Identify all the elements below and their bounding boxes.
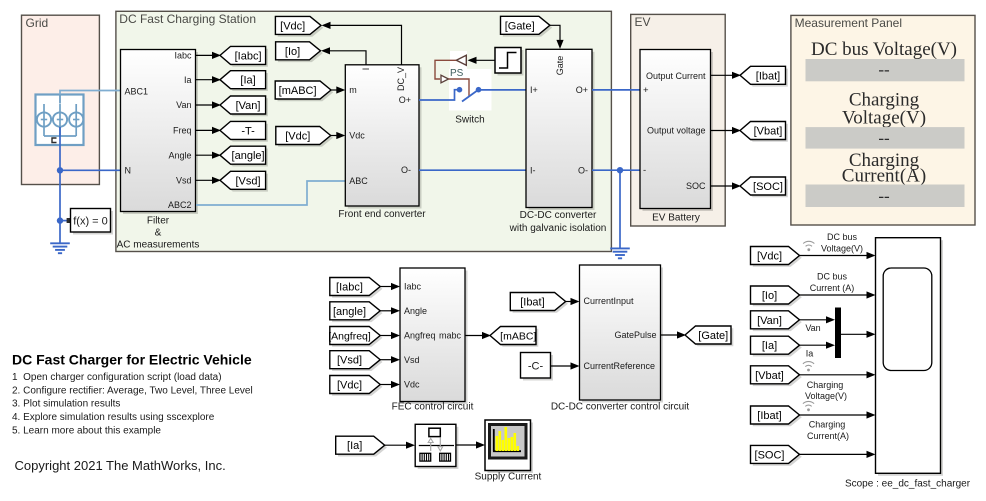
svg-text:PS: PS: [450, 68, 464, 79]
svg-text:&: &: [155, 228, 162, 239]
from tag [SOC] (scope): [751, 445, 802, 465]
svg-text:Voltage(V): Voltage(V): [842, 108, 926, 129]
wireless icon Ibat: [803, 401, 814, 411]
svg-text:Gate: Gate: [555, 56, 565, 76]
svg-text:EV: EV: [635, 15, 651, 29]
svg-text:[Iabc]: [Iabc]: [235, 50, 262, 62]
block DC-DC converter control circuit: [580, 265, 664, 403]
svg-text:+: +: [643, 85, 649, 96]
wire [angle] to FEC Angle: [380, 307, 400, 314]
wire GatePulse to [Gate]: [661, 331, 687, 338]
node f(x) junction: [57, 217, 63, 223]
goto tag [Io] top: [276, 42, 323, 62]
svg-text:EV Battery: EV Battery: [652, 213, 700, 224]
scope screen: [883, 268, 932, 371]
caption DC-DC converter control circuit: [551, 402, 690, 413]
numbered list annotation: [12, 372, 253, 437]
caption Switch: [455, 115, 484, 126]
svg-text:-C-: -C-: [528, 361, 544, 373]
svg-text:3. Plot simulation results: 3. Plot simulation results: [12, 399, 120, 410]
area Measurement Panel: [791, 15, 975, 225]
ground (grid): [50, 243, 70, 253]
from tag [Ia] (scope): [751, 336, 802, 356]
svg-text:DC Fast Charging Station: DC Fast Charging Station: [119, 12, 256, 26]
from tag [Vdc] (FEC): [330, 376, 383, 396]
svg-text:--: --: [878, 60, 890, 79]
ground (dc link): [610, 248, 630, 258]
caption Filter & AC measurements: [117, 216, 200, 251]
svg-text:Vsd: Vsd: [404, 355, 420, 365]
svg-text:[Van]: [Van]: [757, 315, 782, 327]
goto tag [Ia]: [220, 71, 268, 91]
wire [Vdc] to FEC Vdc: [380, 381, 400, 388]
svg-text:Angle: Angle: [168, 150, 191, 160]
wire Filter to [Vsd]: [196, 177, 222, 184]
wire ground drop: [59, 170, 61, 243]
svg-text:CurrentInput: CurrentInput: [584, 296, 635, 306]
svg-text:DC_V: DC_V: [396, 67, 406, 91]
svg-text:[Ibat]: [Ibat]: [757, 410, 781, 422]
wire -C- to CurrentReference: [551, 362, 580, 369]
svg-text:[Angfreq]: [Angfreq]: [328, 330, 371, 342]
svg-text:CurrentReference: CurrentReference: [584, 361, 656, 371]
panel display charging current: [806, 185, 965, 208]
from tag [Gate] top: [501, 16, 553, 36]
wire Filter to [Van]: [196, 101, 222, 108]
svg-text:[Gate]: [Gate]: [505, 20, 535, 32]
wire [Vsd] to FEC Vsd: [380, 356, 400, 363]
switch contact right: [476, 87, 482, 93]
svg-text:ABC2: ABC2: [168, 200, 192, 210]
svg-text:GatePulse: GatePulse: [614, 330, 656, 340]
svg-text:[Ia]: [Ia]: [762, 340, 777, 352]
svg-text:Van: Van: [176, 100, 191, 110]
goto tag [Iabc]: [220, 46, 268, 66]
switch contact left: [457, 87, 463, 93]
svg-text:[Ibat]: [Ibat]: [756, 70, 780, 82]
wire [Vdc] to Vdc port: [331, 132, 346, 139]
svg-text:DC bus: DC bus: [817, 272, 848, 282]
svg-text:Output Current: Output Current: [646, 71, 706, 81]
svg-text:I: I: [361, 68, 371, 71]
caption DC-DC converter: [509, 210, 607, 234]
constant -C-: [521, 353, 554, 381]
wire [Ibat] to scope: [799, 411, 876, 418]
svg-text:Copyright 2021 The MathWorks,: Copyright 2021 The MathWorks, Inc.: [15, 458, 226, 473]
svg-text:Current(A): Current(A): [842, 166, 926, 187]
svg-text:[Vdc]: [Vdc]: [280, 20, 305, 32]
svg-text:DC Fast Charger for Electric V: DC Fast Charger for Electric Vehicle: [12, 352, 252, 368]
svg-text:[Io]: [Io]: [285, 46, 300, 58]
svg-text:[SOC]: [SOC]: [753, 181, 783, 193]
svg-text:5. Learn more about this examp: 5. Learn more about this example: [12, 426, 161, 437]
svg-text:Iabc: Iabc: [404, 282, 422, 292]
goto tag [mABC] out: [490, 327, 538, 347]
DC-DC converter port labels: [530, 56, 588, 176]
switch blade: [462, 90, 478, 102]
goto tag [Van]: [220, 96, 268, 116]
svg-text:Output voltage: Output voltage: [647, 126, 706, 136]
block EV Battery: [640, 50, 713, 212]
wire [Gate] to Gate port: [550, 25, 564, 49]
svg-text:with galvanic isolation: with galvanic isolation: [509, 223, 607, 234]
svg-text:[Vbat]: [Vbat]: [755, 370, 784, 382]
svg-text:Vsd: Vsd: [176, 176, 192, 186]
three-phase voltage source (Grid): [36, 95, 84, 146]
label DC bus Voltage(V): [821, 232, 863, 254]
from tag [Vdc] mid: [276, 127, 333, 147]
svg-text:Ia: Ia: [184, 75, 192, 85]
wire I to [Io]: [321, 47, 366, 65]
wireless icon Vdc: [803, 241, 814, 251]
svg-text:[Ia]: [Ia]: [240, 75, 255, 87]
svg-text:[mABC]: [mABC]: [279, 85, 317, 97]
svg-text:Voltage(V): Voltage(V): [821, 244, 863, 254]
wireless icon Vbat: [803, 362, 814, 372]
label Charging Voltage(V): [805, 380, 847, 401]
svg-text:Freq: Freq: [173, 126, 192, 136]
step source block: [495, 48, 524, 76]
wire step to PS converter: [468, 57, 495, 64]
svg-text:DC bus Voltage(V): DC bus Voltage(V): [811, 39, 957, 60]
panel title DC bus Voltage(V): [811, 39, 957, 60]
from tag [Vdc] (scope): [751, 247, 802, 267]
block DC-DC converter: [526, 49, 595, 210]
from tag [angle] (FEC): [330, 302, 383, 322]
svg-text:[Van]: [Van]: [236, 100, 261, 112]
Filter port labels: [125, 51, 192, 211]
Front end converter port labels: [349, 67, 411, 186]
from tag [Vsd] (FEC): [330, 351, 383, 371]
svg-text:[Vbat]: [Vbat]: [754, 125, 783, 137]
svg-text:Current(A): Current(A): [807, 431, 849, 441]
svg-text:[Io]: [Io]: [762, 290, 777, 302]
svg-text:Supply Current: Supply Current: [475, 472, 542, 483]
svg-text:--: --: [878, 187, 890, 206]
wire [Vdc] to scope: [799, 252, 876, 259]
svg-text:-: -: [643, 165, 646, 176]
DC-DC control port labels: [584, 296, 657, 371]
wire Filter to [Ia]: [196, 76, 222, 83]
wire buffer to spectrum: [456, 441, 485, 448]
wire [SOC] to scope: [799, 451, 876, 458]
wire Filter to [angle]: [196, 152, 222, 159]
svg-text:Charging: Charging: [807, 380, 844, 390]
goto tag -T-: [220, 121, 268, 141]
svg-text:Current (A): Current (A): [810, 283, 855, 293]
svg-text:Measurement Panel: Measurement Panel: [795, 16, 902, 30]
panel title Charging Voltage(V): [842, 90, 926, 129]
svg-text:[mABC]: [mABC]: [500, 330, 536, 342]
svg-text:FEC control circuit: FEC control circuit: [392, 402, 474, 413]
svg-text:Van: Van: [805, 323, 820, 333]
wire [Ia] to buffer: [385, 442, 415, 449]
area Grid: [22, 15, 100, 184]
wire mabc to [mABC]: [465, 332, 491, 339]
svg-text:I+: I+: [530, 85, 538, 95]
svg-text:[Ibat]: [Ibat]: [520, 296, 544, 308]
panel title Charging Current(A): [842, 150, 926, 187]
block Front end converter: [345, 65, 421, 209]
svg-text:ABC: ABC: [349, 176, 368, 186]
svg-text:-T-: -T-: [241, 125, 255, 137]
label PS: [450, 68, 464, 79]
copyright annotation: [15, 458, 226, 473]
svg-text:Voltage(V): Voltage(V): [805, 391, 847, 401]
simulink-ps converter: [456, 55, 466, 65]
goto tag [Ibat]: [740, 66, 788, 86]
wire [Ia] to mux: [800, 342, 836, 349]
from tag [Iabc] (FEC): [330, 278, 383, 298]
wire Front end O+ to switch: [419, 90, 459, 100]
svg-text:Charging: Charging: [809, 420, 846, 430]
wire battery to [Vbat]: [711, 127, 742, 134]
from tag [Ibat] (scope): [751, 406, 802, 426]
label Charging Current(A): [807, 420, 849, 441]
svg-text:m: m: [349, 85, 357, 95]
wire N (source to Filter): [60, 127, 121, 170]
wire ABC1 (source to Filter): [60, 91, 121, 95]
svg-text:[angle]: [angle]: [232, 150, 265, 162]
svg-text:DC-DC converter: DC-DC converter: [520, 210, 597, 221]
from tag [Io] (scope): [751, 286, 802, 306]
goto tag [Vbat]: [740, 122, 788, 142]
wire O- to ground: [619, 170, 621, 248]
block Scope: [876, 238, 944, 476]
svg-text:[Iabc]: [Iabc]: [336, 281, 363, 293]
svg-text:[Vsd]: [Vsd]: [236, 175, 261, 187]
wire [Van] to mux: [800, 316, 836, 323]
from tag [Ia] (supply): [336, 436, 387, 456]
label DC bus Current (A): [810, 272, 855, 294]
block FEC control circuit: [400, 268, 468, 404]
svg-text:Vdc: Vdc: [349, 131, 365, 141]
svg-text:[Vdc]: [Vdc]: [337, 379, 362, 391]
svg-text:O-: O-: [578, 165, 588, 175]
spectrum analyzer Supply Current: [485, 420, 533, 473]
area DC Fast Charging Station: [116, 11, 612, 251]
wire Front end O- to DC-DC I-: [419, 169, 526, 171]
buffer block: [415, 424, 458, 469]
wire battery to [SOC]: [711, 182, 742, 189]
caption Scope: [845, 479, 971, 490]
wire O+ to battery +: [592, 89, 640, 91]
from tag [Vbat] (scope): [751, 366, 802, 386]
svg-text:1 Open charger configuration: 1 Open charger configuration script (loa…: [12, 372, 222, 383]
caption Front end converter: [338, 209, 426, 220]
from tag [mABC]: [275, 81, 333, 101]
svg-text:Iabc: Iabc: [174, 51, 192, 61]
wire Filter to -T-: [196, 127, 222, 134]
wire to solver: [60, 218, 71, 223]
goto tag [Vdc] top: [275, 16, 323, 36]
switch background: [449, 51, 492, 111]
wire [Iabc] to FEC Iabc: [380, 283, 400, 290]
svg-text:Scope : ee_dc_fast_charger: Scope : ee_dc_fast_charger: [845, 479, 971, 490]
wire DC_V to [Vdc]: [322, 22, 402, 65]
mux: [835, 308, 841, 359]
FEC control port labels: [404, 282, 461, 390]
EV Battery port labels: [643, 71, 706, 191]
goto tag [SOC]: [740, 177, 788, 197]
wire [mABC] to m: [331, 86, 345, 93]
svg-text:[Vdc]: [Vdc]: [757, 250, 782, 262]
caption EV Battery: [652, 213, 700, 224]
node N junction: [57, 167, 63, 173]
svg-text:SOC: SOC: [686, 181, 706, 191]
svg-text:Front end converter: Front end converter: [338, 209, 426, 220]
wire [Ibat] to CurrentInput: [566, 298, 580, 305]
svg-text:Ia: Ia: [806, 348, 814, 358]
title annotation: [12, 352, 252, 368]
svg-text:Angfreq: Angfreq: [404, 331, 436, 341]
label Ia: [806, 348, 814, 358]
from tag [Van] (scope): [751, 311, 802, 331]
svg-text:Grid: Grid: [26, 16, 49, 30]
caption FEC control circuit: [392, 402, 474, 413]
panel display dcbus: [806, 59, 965, 81]
svg-text:Angle: Angle: [404, 306, 427, 316]
svg-text:2. Configure rectifier: Averag: 2. Configure rectifier: Average, Two Lev…: [12, 385, 253, 396]
area EV: [631, 14, 726, 226]
svg-text:Filter: Filter: [147, 216, 170, 227]
wire [Vbat] to scope: [799, 371, 876, 378]
svg-text:--: --: [878, 129, 890, 148]
svg-text:O+: O+: [399, 95, 411, 105]
panel display charging voltage: [806, 127, 965, 149]
svg-text:[Gate]: [Gate]: [698, 330, 728, 342]
wire mux to scope: [841, 331, 876, 338]
svg-text:O-: O-: [401, 165, 411, 175]
svg-text:[angle]: [angle]: [333, 306, 366, 318]
svg-text:Switch: Switch: [455, 115, 484, 126]
wire [Io] to scope: [799, 291, 876, 298]
solver f(x)=0: [71, 209, 114, 235]
wire ABC2 to Front end converter: [196, 181, 346, 205]
svg-text:DC-DC converter control circui: DC-DC converter control circuit: [551, 402, 690, 413]
block Filter & AC measurements: [121, 50, 199, 215]
svg-text:mabc: mabc: [439, 331, 462, 341]
svg-text:Vdc: Vdc: [404, 380, 420, 390]
svg-text:[Vdc]: [Vdc]: [285, 130, 310, 142]
svg-text:ABC1: ABC1: [125, 86, 149, 96]
caption Supply Current: [475, 472, 542, 483]
node O- junction: [617, 167, 623, 173]
svg-text:f(x) = 0: f(x) = 0: [73, 216, 108, 228]
wire O- to battery -: [592, 169, 640, 171]
svg-text:DC bus: DC bus: [827, 232, 858, 242]
wire switch to DC-DC I+: [479, 89, 527, 91]
from tag [Angfreq] (FEC): [328, 327, 382, 347]
svg-text:[Ia]: [Ia]: [347, 440, 362, 452]
svg-text:O+: O+: [576, 85, 588, 95]
svg-text:N: N: [125, 166, 132, 176]
svg-text:AC measurements: AC measurements: [117, 240, 200, 251]
goto tag [Gate] out: [685, 326, 733, 346]
wire Filter to [Iabc]: [196, 52, 222, 59]
svg-text:[Vsd]: [Vsd]: [337, 355, 362, 367]
goto tag [angle]: [220, 146, 268, 166]
svg-text:I-: I-: [530, 165, 536, 175]
wire battery to [Ibat]: [711, 72, 742, 79]
goto tag [Vsd]: [220, 171, 268, 191]
wire PS control to switch: [435, 60, 469, 97]
svg-text:[SOC]: [SOC]: [755, 449, 785, 461]
from tag [Ibat] (control): [510, 293, 568, 313]
wire [Angfreq] to FEC Angfreq: [380, 332, 400, 339]
svg-text:4. Explore simulation results: 4. Explore simulation results using ssce…: [12, 412, 215, 423]
label Van: [805, 323, 820, 333]
